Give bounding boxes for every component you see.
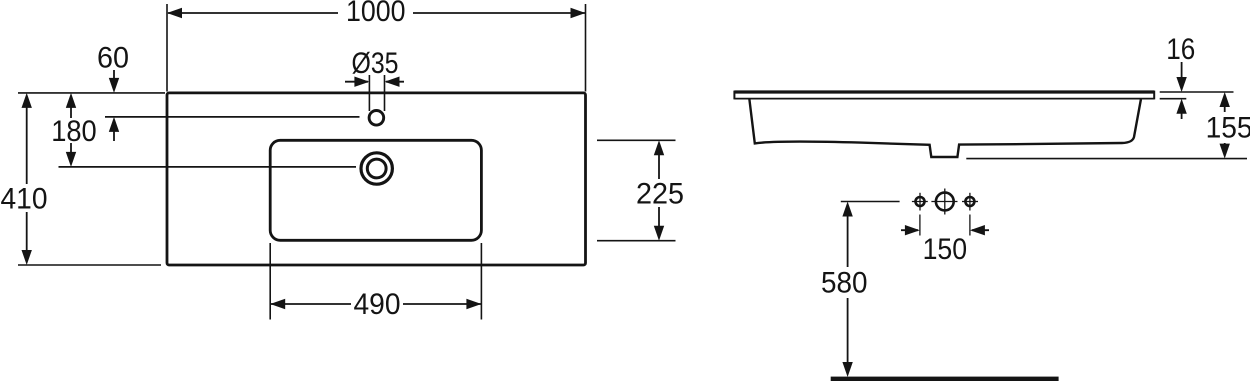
extension line bottom edge (left of rect) — [18, 264, 161, 266]
dim 1000: extension lines — [166, 4, 168, 92]
dim 580: top extension line — [841, 201, 900, 203]
dim 1000: left arrowhead — [167, 8, 182, 18]
washbasin plan view: inner basin rounded rectangle — [270, 140, 481, 240]
svg-text:Ø35: Ø35 — [352, 47, 399, 80]
dim Ø35: right arrowhead — [385, 77, 400, 87]
dim 1000: right arrowhead — [571, 8, 586, 18]
dim 225: dimension line + arrowheads — [658, 152, 660, 179]
faucet hole (plan) — [369, 111, 384, 126]
dim 180: dimension line + arrowheads — [70, 104, 72, 118]
dim 16: upper leader + down arrowhead — [1181, 62, 1183, 80]
faucet holes front view: left hole — [916, 197, 925, 206]
svg-text:1000: 1000 — [346, 0, 406, 28]
centerline to faucet hole — [105, 116, 360, 118]
faucet holes front view: middle hole — [936, 193, 954, 211]
svg-text:490: 490 — [354, 288, 401, 321]
floor line — [831, 377, 1059, 381]
dim 410: dimension line + arrowheads — [26, 104, 28, 184]
drain inner ring (plan) — [367, 159, 386, 178]
dim 150: arrow lines + arrowheads — [901, 229, 918, 231]
dim 225: extension lines — [597, 139, 676, 141]
svg-text:16: 16 — [1166, 33, 1195, 66]
svg-text:60: 60 — [97, 42, 129, 75]
washbasin plan view: outer countertop rectangle — [167, 93, 586, 265]
svg-text:155: 155 — [1206, 112, 1250, 145]
extension line top edge (left of rect) — [18, 92, 165, 94]
centerline to drain — [59, 166, 357, 168]
side view: countertop rim slab — [734, 90, 1154, 93]
svg-text:180: 180 — [51, 115, 96, 148]
dim 580: dimension line + arrowheads — [847, 214, 849, 267]
svg-text:225: 225 — [636, 178, 684, 211]
svg-text:580: 580 — [821, 267, 868, 300]
dim 490: extension lines — [269, 243, 271, 320]
dim Ø35: arrow lines — [345, 81, 368, 83]
svg-text:150: 150 — [923, 233, 968, 266]
dim 490: dimension line + arrowheads — [271, 303, 351, 305]
side view: basin body outline — [749, 99, 1141, 157]
dim 155: dimension line + arrowheads — [1224, 104, 1226, 112]
dim 1000: dimension line — [168, 12, 338, 14]
dim 155: bottom extension line from drain stub — [966, 158, 1247, 160]
svg-text:410: 410 — [1, 183, 48, 216]
dim 16: lower leader + up arrowhead — [1181, 111, 1183, 119]
dim 16: extension lines — [1160, 91, 1234, 93]
dim 150: extension lines below holes — [919, 215, 921, 236]
dim 60: lower leader + up arrowhead — [113, 128, 115, 141]
dim Ø35: tangent extension lines — [368, 75, 370, 111]
faucet holes front view: right hole — [965, 197, 974, 206]
dim Ø35: left arrowhead — [354, 77, 369, 87]
drain outer ring (plan) — [361, 153, 392, 184]
dim 60: upper leader + down arrowhead — [113, 70, 115, 80]
